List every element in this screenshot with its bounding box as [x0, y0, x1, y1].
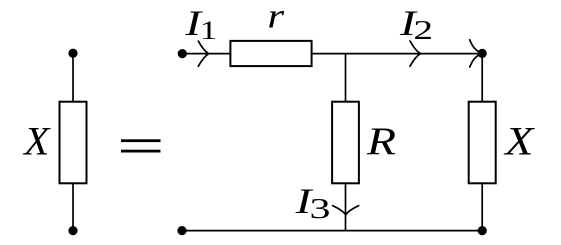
wire: bottom rail — [182, 230, 482, 232]
wire: left X bottom lead — [72, 183, 74, 230]
wire: junction down to resistor R — [345, 54, 347, 102]
current arrow I3 (downward) — [333, 206, 359, 215]
current arrow I1 — [198, 41, 208, 66]
resistor r (series, body) — [230, 41, 311, 66]
svg-text:R: R — [366, 120, 396, 163]
current arrow I2 — [410, 41, 420, 66]
wire: left X top lead — [72, 53, 74, 102]
resistor R (shunt, body) — [332, 102, 359, 184]
node: input terminal dot (top-left) — [178, 49, 187, 58]
node: bottom-right terminal dot — [478, 226, 487, 235]
svg-text:3: 3 — [310, 193, 331, 224]
node: top terminal dot (left X) — [68, 49, 77, 58]
resistor X (left, body) — [60, 102, 87, 184]
svg-text:r: r — [267, 0, 285, 35]
resistor X (right, body) — [469, 102, 496, 184]
node: bottom terminal dot (left X) — [68, 226, 77, 235]
svg-text:2: 2 — [413, 16, 433, 46]
svg-text:1: 1 — [200, 16, 218, 45]
wire: resistor r to output node (through junction) — [312, 53, 482, 55]
wire: input to resistor r — [182, 53, 230, 55]
wire: output node down to resistor X — [481, 53, 483, 102]
node: bottom-left terminal dot — [177, 226, 186, 235]
wire: resistor R to bottom rail — [345, 183, 347, 230]
svg-text:X: X — [22, 119, 51, 163]
node: output terminal dot (top-right) — [478, 49, 487, 58]
svg-text:X: X — [503, 120, 535, 163]
equals sign — [121, 139, 161, 152]
arrowhead at output node — [470, 40, 482, 67]
wire: resistor X to bottom rail — [481, 183, 483, 230]
